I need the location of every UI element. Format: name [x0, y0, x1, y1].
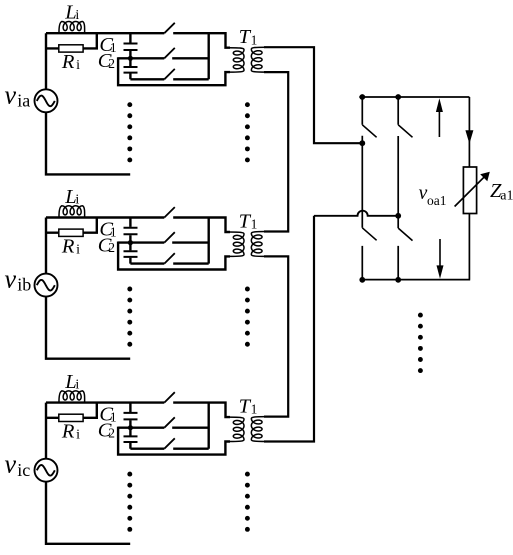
svg-text:ib: ib — [17, 275, 31, 295]
svg-text:v: v — [5, 265, 17, 294]
svg-text:1: 1 — [251, 402, 258, 417]
svg-text:i: i — [76, 58, 80, 73]
svg-text:R: R — [61, 421, 75, 443]
svg-text:ia: ia — [17, 90, 30, 110]
svg-text:i: i — [76, 428, 80, 443]
svg-text:R: R — [61, 51, 75, 73]
svg-text:i: i — [76, 242, 80, 257]
svg-text:a1: a1 — [500, 188, 513, 203]
svg-text:i: i — [75, 377, 79, 392]
svg-text:i: i — [75, 8, 79, 23]
svg-text:v: v — [5, 80, 17, 109]
svg-text:oa1: oa1 — [427, 193, 447, 208]
svg-text:R: R — [61, 236, 75, 258]
svg-text:2: 2 — [108, 425, 115, 440]
svg-text:1: 1 — [251, 32, 258, 47]
svg-text:i: i — [75, 192, 79, 207]
svg-text:2: 2 — [108, 56, 115, 71]
svg-text:ic: ic — [17, 460, 30, 480]
svg-text:v: v — [5, 450, 17, 479]
svg-text:1: 1 — [251, 217, 258, 232]
svg-text:2: 2 — [108, 240, 115, 255]
